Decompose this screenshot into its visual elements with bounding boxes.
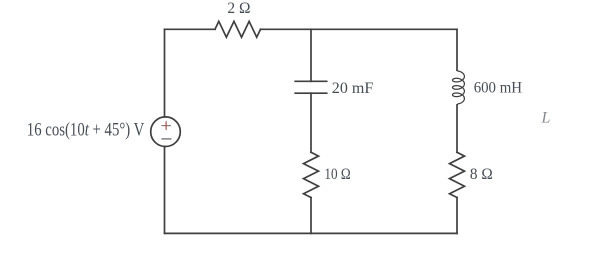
svg-text:600 mH: 600 mH: [474, 79, 523, 96]
wire top-right horizontal: [261, 28, 458, 30]
wire bottom horizontal: [165, 232, 458, 234]
svg-text:8 Ω: 8 Ω: [470, 166, 493, 183]
wire right vertical mid: [456, 105, 458, 152]
wire top-left horizontal: [165, 28, 216, 30]
wire middle vertical upper: [310, 29, 312, 81]
resistor R1 2ohm zigzag: [215, 21, 261, 37]
wire left vertical upper: [164, 29, 166, 117]
svg-text:L: L: [541, 110, 551, 127]
wire middle vertical mid: [310, 93, 312, 152]
wire left vertical lower: [164, 147, 166, 234]
svg-text:16 cos(10t + 45°) V: 16 cos(10t + 45°) V: [27, 120, 145, 141]
voltage source minus sign: [161, 138, 171, 140]
svg-text:2 Ω: 2 Ω: [227, 0, 250, 17]
voltage source VS circle: [151, 117, 181, 147]
resistor R2 10ohm zigzag: [304, 152, 319, 197]
capacitor C1 20mF plates: [295, 81, 327, 93]
wire middle vertical lower: [310, 198, 312, 234]
wire right vertical upper: [456, 29, 458, 70]
wire right vertical lower: [456, 198, 458, 234]
voltage source plus sign: [161, 121, 171, 130]
inductor L1 600mH coil: [453, 70, 465, 105]
svg-text:10 Ω: 10 Ω: [324, 166, 350, 183]
resistor R3 8ohm zigzag: [450, 152, 465, 197]
svg-text:20 mF: 20 mF: [332, 80, 374, 97]
